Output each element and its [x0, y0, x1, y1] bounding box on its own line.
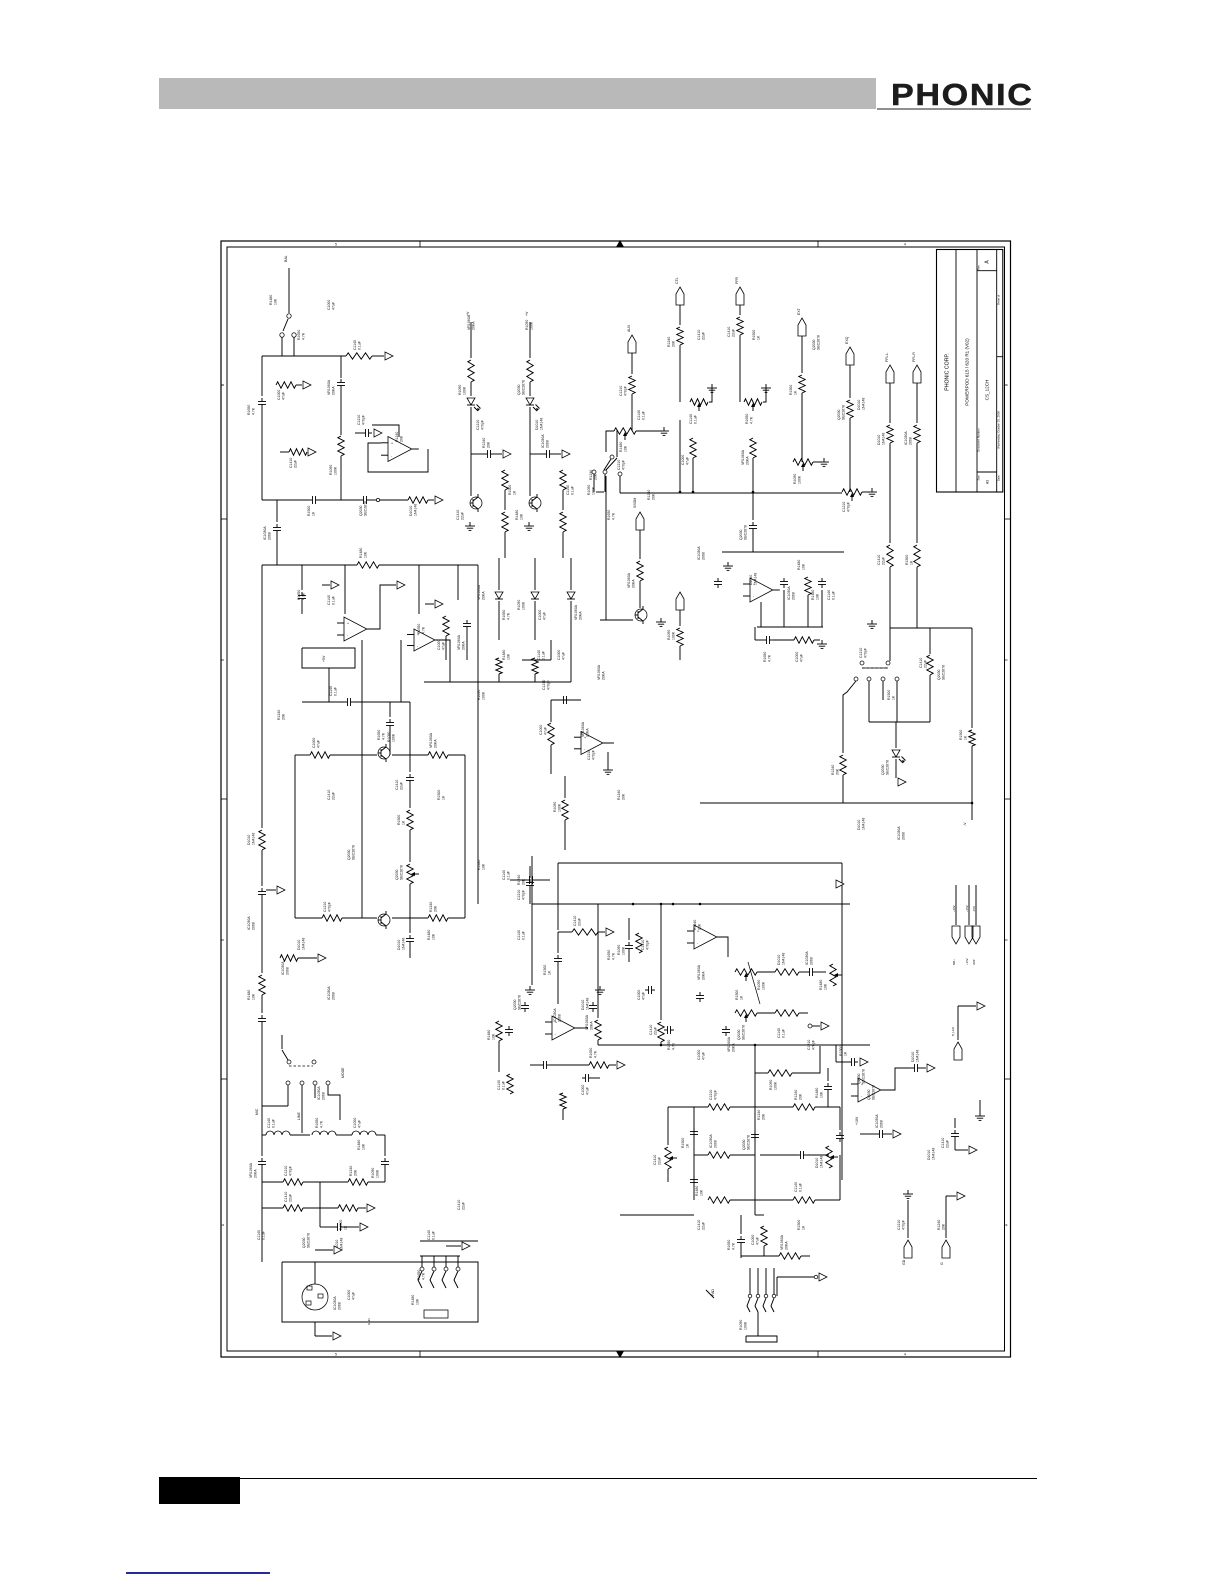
svg-text:PFL.L: PFL.L: [885, 353, 889, 362]
svg-text:D1010: D1010: [877, 435, 881, 445]
svg-text:20K: 20K: [762, 1113, 766, 1120]
svg-text:Rev: Rev: [977, 264, 981, 269]
svg-text:SEC2878: SEC2878: [518, 995, 522, 1010]
svg-text:C1000: C1000: [795, 652, 799, 662]
svg-text:GND: GND: [367, 1318, 371, 1326]
svg-text:R1480: R1480: [247, 990, 251, 1000]
svg-text:BAL: BAL: [284, 255, 288, 262]
svg-text:470pF: 470pF: [902, 1220, 906, 1230]
svg-text:4: 4: [904, 1353, 906, 1357]
svg-text:C1140: C1140: [427, 1230, 431, 1240]
svg-text:C1210: C1210: [842, 502, 846, 512]
svg-text:0.1uF: 0.1uF: [542, 651, 546, 660]
svg-text:C1210: C1210: [709, 1090, 713, 1100]
svg-text:10K: 10K: [416, 1298, 420, 1305]
svg-text:SEC2878: SEC2878: [842, 405, 846, 420]
svg-text:R1090: R1090: [757, 980, 761, 990]
svg-text:C1000: C1000: [581, 1085, 585, 1095]
svg-text:PFR: PFR: [735, 277, 739, 284]
svg-text:+48V: +48V: [952, 905, 956, 912]
svg-text:C1140: C1140: [353, 340, 357, 350]
svg-text:POWERPOD 615 / 620 R1 (V02): POWERPOD 615 / 620 R1 (V02): [965, 338, 970, 406]
svg-text:100K: 100K: [774, 1081, 778, 1090]
svg-text:VR1060A: VR1060A: [697, 964, 701, 980]
svg-text:EXT: EXT: [797, 307, 801, 315]
svg-text:D1010: D1010: [297, 940, 301, 950]
svg-text:47uF: 47uF: [586, 1087, 590, 1095]
svg-text:470pF: 470pF: [622, 460, 626, 470]
svg-text:1K: 1K: [802, 1225, 806, 1230]
svg-text:1K: 1K: [757, 335, 761, 340]
svg-text:C1410: C1410: [573, 916, 577, 926]
svg-text:1N4148: 1N4148: [862, 818, 866, 830]
svg-text:22uF: 22uF: [289, 1194, 293, 1202]
svg-text:20KA: 20KA: [702, 971, 706, 980]
svg-text:100K: 100K: [762, 981, 766, 990]
svg-text:20KA: 20KA: [586, 728, 590, 737]
svg-text:C1140: C1140: [777, 1028, 781, 1038]
svg-text:Q2030: Q2030: [857, 1073, 861, 1084]
svg-text:1K: 1K: [344, 1225, 348, 1230]
svg-text:VR1060A: VR1060A: [467, 314, 471, 330]
svg-text:-: -: [391, 454, 393, 458]
svg-text:D1010: D1010: [535, 420, 539, 430]
svg-text:47uF: 47uF: [332, 302, 336, 310]
svg-text:22uF: 22uF: [946, 1140, 950, 1148]
svg-text:4.7K: 4.7K: [750, 416, 754, 424]
svg-text:R1650: R1650: [247, 405, 251, 415]
svg-text:R1090: R1090: [458, 385, 462, 395]
svg-text:4.7K: 4.7K: [612, 952, 616, 960]
svg-text:22uF: 22uF: [462, 1202, 466, 1210]
svg-text:R1240: R1240: [667, 337, 671, 347]
svg-text:Q2030: Q2030: [359, 505, 363, 516]
svg-text:C1410: C1410: [289, 458, 293, 468]
svg-text:47uF: 47uF: [756, 1237, 760, 1245]
svg-text:22uF: 22uF: [882, 557, 886, 565]
svg-text:C1000: C1000: [277, 390, 281, 400]
svg-text:4.7K: 4.7K: [302, 592, 306, 600]
svg-text:VR1060A: VR1060A: [585, 1014, 589, 1030]
svg-text:SEC2878: SEC2878: [862, 1069, 866, 1084]
svg-text:470pF: 470pF: [847, 502, 851, 512]
svg-text:R1090: R1090: [739, 1320, 743, 1330]
svg-text:C1140: C1140: [689, 414, 693, 424]
svg-text:R1090: R1090: [517, 600, 521, 610]
svg-text:1K: 1K: [794, 390, 798, 395]
svg-text:C1140: C1140: [637, 410, 641, 420]
svg-text:C1410: C1410: [395, 780, 399, 790]
svg-text:B_LED: B_LED: [951, 1027, 955, 1036]
svg-text:SEC2878: SEC2878: [744, 525, 748, 540]
svg-text:Q2030: Q2030: [513, 999, 517, 1010]
svg-text:8: 8: [221, 939, 225, 941]
svg-text:-: -: [697, 942, 699, 946]
svg-text:4.7K: 4.7K: [302, 332, 306, 340]
svg-text:20K: 20K: [522, 878, 526, 885]
svg-text:C1410: C1410: [457, 1200, 461, 1210]
svg-text:-: -: [417, 644, 419, 648]
svg-text:20K: 20K: [652, 493, 656, 500]
svg-text:C1210: C1210: [619, 386, 623, 396]
svg-text:47uF: 47uF: [358, 1120, 362, 1128]
svg-text:0.1uF: 0.1uF: [502, 1081, 506, 1090]
svg-text:-15V: -15V: [972, 906, 976, 912]
svg-text:22uF: 22uF: [702, 332, 706, 340]
svg-text:Size: Size: [977, 475, 981, 481]
svg-text:VR1060A: VR1060A: [429, 732, 433, 748]
svg-text:20KA: 20KA: [579, 611, 583, 620]
svg-text:1N4148: 1N4148: [916, 1050, 920, 1062]
svg-text:20KA: 20KA: [462, 641, 466, 650]
svg-text:B: B: [221, 384, 225, 386]
svg-text:47uF: 47uF: [317, 740, 321, 748]
svg-text:C1210: C1210: [807, 1040, 811, 1050]
svg-text:IC1030A: IC1030A: [281, 961, 285, 975]
svg-text:1N4148: 1N4148: [302, 938, 306, 950]
svg-text:100K: 100K: [376, 1169, 380, 1178]
svg-text:8: 8: [221, 659, 225, 661]
svg-text:R1480: R1480: [477, 860, 481, 870]
svg-text:10K: 10K: [816, 593, 820, 600]
svg-text:2068: 2068: [546, 440, 550, 448]
svg-text:IC1030A: IC1030A: [553, 1008, 557, 1022]
svg-text:SEC2878: SEC2878: [400, 865, 404, 880]
svg-text:8: 8: [1005, 659, 1009, 661]
svg-text:20KA: 20KA: [602, 671, 606, 680]
svg-text:R1500: R1500: [797, 1220, 801, 1230]
svg-text:MIC: MIC: [255, 1108, 259, 1115]
svg-text:Q2030: Q2030: [812, 339, 816, 350]
svg-text:47uF: 47uF: [282, 392, 286, 400]
svg-text:20K: 20K: [799, 1093, 803, 1100]
svg-text:1K: 1K: [312, 511, 316, 516]
svg-text:R1500: R1500: [437, 790, 441, 800]
svg-text:2068: 2068: [332, 992, 336, 1000]
svg-text:20K: 20K: [942, 1223, 946, 1230]
svg-text:Q2030: Q2030: [517, 384, 521, 395]
svg-text:R1480: R1480: [502, 650, 506, 660]
svg-text:22uF: 22uF: [702, 1222, 706, 1230]
svg-text:20KA: 20KA: [332, 386, 336, 395]
svg-text:R1240: R1240: [693, 920, 697, 930]
svg-text:4.7K: 4.7K: [382, 732, 386, 740]
svg-text:CS_12CH: CS_12CH: [985, 380, 990, 401]
svg-text:1N4148: 1N4148: [414, 504, 418, 516]
svg-text:20KA: 20KA: [482, 591, 486, 600]
svg-text:GD: GD: [902, 1259, 906, 1265]
svg-text:VR1060A: VR1060A: [581, 721, 585, 737]
svg-text:0.1uF: 0.1uF: [507, 871, 511, 880]
svg-text:R1090: R1090: [371, 1168, 375, 1178]
svg-text:22uF: 22uF: [732, 329, 736, 337]
svg-text:C1410: C1410: [727, 327, 731, 337]
svg-text:R1090: R1090: [667, 630, 671, 640]
svg-text:100K: 100K: [482, 691, 486, 700]
svg-text:R1500: R1500: [508, 485, 512, 495]
svg-text:C1140: C1140: [517, 930, 521, 940]
svg-text:C1410: C1410: [697, 330, 701, 340]
svg-text:R1500: R1500: [959, 730, 963, 740]
svg-text:R1240: R1240: [482, 438, 486, 448]
svg-text:IC1030A: IC1030A: [327, 986, 331, 1000]
svg-text:1K: 1K: [442, 795, 446, 800]
svg-text:D1010: D1010: [397, 940, 401, 950]
svg-text:SEC2878: SEC2878: [364, 501, 368, 516]
svg-text:20KA: 20KA: [732, 1043, 736, 1052]
svg-text:470pF: 470pF: [362, 415, 366, 425]
svg-text:1K: 1K: [548, 970, 552, 975]
svg-text:R1090: R1090: [525, 320, 529, 330]
svg-text:C1210: C1210: [587, 750, 591, 760]
svg-text:0.1uF: 0.1uF: [432, 1231, 436, 1240]
svg-text:R1240: R1240: [647, 490, 651, 500]
svg-text:R1650: R1650: [417, 1270, 421, 1280]
svg-text:10K: 10K: [482, 863, 486, 870]
svg-text:1K: 1K: [892, 695, 896, 700]
svg-text:2068: 2068: [338, 1302, 342, 1310]
svg-text:R1500: R1500: [307, 506, 311, 516]
svg-text:10K: 10K: [492, 1033, 496, 1040]
svg-text:-: -: [861, 1095, 863, 1099]
svg-text:470pF: 470pF: [547, 680, 551, 690]
svg-text:AUX: AUX: [627, 324, 631, 332]
svg-text:R1240: R1240: [757, 1110, 761, 1120]
svg-text:R1480: R1480: [619, 442, 623, 452]
svg-text:22uF: 22uF: [924, 660, 928, 668]
svg-text:470pF: 470pF: [328, 902, 332, 912]
svg-text:0.1uF: 0.1uF: [694, 415, 698, 424]
svg-text:1N4148: 1N4148: [882, 433, 886, 445]
svg-text:B: B: [1005, 384, 1009, 386]
svg-text:0.1uF: 0.1uF: [522, 931, 526, 940]
svg-text:20K: 20K: [487, 441, 491, 448]
svg-text:4: 4: [619, 243, 621, 247]
svg-text:2068: 2068: [909, 437, 913, 445]
svg-text:2068: 2068: [286, 967, 290, 975]
svg-text:C1410: C1410: [327, 790, 331, 800]
svg-text:C1410: C1410: [919, 658, 923, 668]
svg-text:C1210: C1210: [284, 1166, 288, 1176]
svg-text:-V: -V: [963, 822, 967, 826]
svg-text:+: +: [391, 441, 393, 445]
svg-text:1N4148: 1N4148: [862, 398, 866, 410]
svg-text:10K: 10K: [364, 551, 368, 558]
svg-text:VR1060A: VR1060A: [780, 1234, 784, 1250]
svg-text:470pF: 470pF: [289, 1166, 293, 1176]
svg-text:VR1060A: VR1060A: [727, 1036, 731, 1052]
svg-text:VR1060A: VR1060A: [597, 664, 601, 680]
svg-text:C1000: C1000: [353, 1118, 357, 1128]
svg-text:20K: 20K: [434, 905, 438, 912]
svg-text:R1650: R1650: [745, 414, 749, 424]
svg-text:IC1030A: IC1030A: [904, 431, 908, 445]
svg-text:R1240: R1240: [517, 875, 521, 885]
svg-text:47uF: 47uF: [352, 1292, 356, 1300]
svg-text:Q2030: Q2030: [737, 1029, 741, 1040]
svg-text:IC1030A: IC1030A: [247, 916, 251, 930]
svg-text:22uF: 22uF: [654, 1027, 658, 1035]
svg-text:0.1uF: 0.1uF: [272, 1119, 276, 1128]
svg-text:22uF: 22uF: [400, 782, 404, 790]
svg-text:100K: 100K: [530, 321, 534, 330]
svg-text:20KA: 20KA: [785, 1241, 789, 1250]
svg-text:IC1030A: IC1030A: [697, 546, 701, 560]
svg-text:R1500: R1500: [789, 385, 793, 395]
svg-text:1N4148: 1N4148: [820, 1156, 824, 1168]
svg-text:47uF: 47uF: [543, 612, 547, 620]
svg-text:Document Number: Document Number: [977, 428, 981, 452]
svg-text:R1240: R1240: [277, 710, 281, 720]
svg-text:A: A: [1005, 1223, 1009, 1226]
svg-text:SEC2878: SEC2878: [742, 1025, 746, 1040]
svg-text:R1650: R1650: [417, 624, 421, 634]
svg-text:C1410: C1410: [653, 1155, 657, 1165]
svg-text:100K: 100K: [522, 601, 526, 610]
svg-text:PHONIC CORP.: PHONIC CORP.: [945, 353, 951, 390]
svg-text:1K: 1K: [964, 735, 968, 740]
svg-text:10K: 10K: [432, 933, 436, 940]
svg-text:47uF: 47uF: [562, 652, 566, 660]
svg-text:VR1060A: VR1060A: [249, 1162, 253, 1178]
svg-text:2068: 2068: [702, 552, 706, 560]
svg-text:VR1060A: VR1060A: [627, 572, 631, 588]
svg-text:C1140: C1140: [566, 485, 570, 495]
svg-text:470pF: 470pF: [646, 940, 650, 950]
svg-text:1K: 1K: [740, 995, 744, 1000]
svg-text:22uF: 22uF: [294, 460, 298, 468]
svg-text:4.7K: 4.7K: [594, 1050, 598, 1058]
svg-text:R1650: R1650: [297, 330, 301, 340]
svg-text:C1140: C1140: [329, 686, 333, 696]
svg-text:2068: 2068: [322, 1092, 326, 1100]
svg-text:C1210: C1210: [357, 415, 361, 425]
svg-text:C1000: C1000: [557, 650, 561, 660]
svg-text:20KA: 20KA: [472, 321, 476, 330]
svg-text:470pF: 470pF: [714, 1090, 718, 1100]
svg-text:LINE: LINE: [297, 1112, 301, 1120]
svg-text:C1000: C1000: [637, 990, 641, 1000]
svg-text:1N4148: 1N4148: [754, 573, 758, 585]
svg-text:Q2030: Q2030: [937, 669, 941, 680]
svg-text:100K: 100K: [334, 466, 338, 475]
svg-text:R1650: R1650: [763, 652, 767, 662]
svg-text:20K: 20K: [836, 768, 840, 775]
svg-text:SEC2878: SEC2878: [307, 1233, 311, 1248]
svg-text:Q2030: Q2030: [302, 1237, 306, 1248]
svg-text:20KA: 20KA: [746, 456, 750, 465]
svg-text:R1500: R1500: [543, 965, 547, 975]
svg-text:4.7K: 4.7K: [320, 1120, 324, 1128]
svg-text:R1090: R1090: [617, 945, 621, 955]
svg-text:20KA: 20KA: [254, 1169, 258, 1178]
svg-text:C1410: C1410: [941, 1138, 945, 1148]
svg-text:20KA: 20KA: [590, 1021, 594, 1030]
svg-text:20KA: 20KA: [632, 579, 636, 588]
svg-text:SEC2878: SEC2878: [352, 845, 356, 860]
svg-text:1N4148: 1N4148: [586, 998, 590, 1010]
svg-text:4.7K: 4.7K: [768, 654, 772, 662]
svg-text:R1090: R1090: [793, 474, 797, 484]
svg-text:IC1030A: IC1030A: [709, 1134, 713, 1148]
svg-text:C1410: C1410: [649, 1025, 653, 1035]
svg-text:D1010: D1010: [581, 1000, 585, 1010]
svg-text:R1090: R1090: [587, 485, 591, 495]
svg-text:D1010: D1010: [749, 575, 753, 585]
svg-text:-: -: [584, 747, 586, 751]
svg-text:IC1030A: IC1030A: [333, 1296, 337, 1310]
svg-text:20K: 20K: [672, 340, 676, 347]
svg-text:100K: 100K: [463, 386, 467, 395]
svg-text:1N4148: 1N4148: [782, 953, 786, 965]
svg-text:20K: 20K: [400, 435, 404, 442]
svg-text:22uF: 22uF: [578, 918, 582, 926]
svg-text:10K: 10K: [802, 563, 806, 570]
svg-text:10K: 10K: [274, 298, 278, 305]
svg-text:D1010: D1010: [815, 1158, 819, 1168]
svg-text:470pF: 470pF: [864, 648, 868, 658]
svg-text:-: -: [555, 1033, 557, 1037]
svg-text:PFL.R: PFL.R: [912, 352, 916, 362]
svg-text:47uF: 47uF: [800, 654, 804, 662]
svg-text:100K: 100K: [622, 946, 626, 955]
svg-text:10K: 10K: [507, 653, 511, 660]
svg-text:470pF: 470pF: [481, 420, 485, 430]
svg-text:SEC2878: SEC2878: [817, 335, 821, 350]
svg-text:C1210: C1210: [641, 940, 645, 950]
svg-text:2068: 2068: [252, 922, 256, 930]
svg-text:G: G: [940, 1262, 944, 1265]
svg-text:R1090: R1090: [329, 465, 333, 475]
svg-text:VR1060A: VR1060A: [457, 634, 461, 650]
svg-text:SEC2878: SEC2878: [886, 760, 890, 775]
svg-text:C1210: C1210: [476, 420, 480, 430]
svg-text:SEC2878: SEC2878: [872, 1085, 876, 1100]
svg-text:R1480: R1480: [357, 1140, 361, 1150]
svg-text:R1090: R1090: [769, 1080, 773, 1090]
svg-text:Q2030: Q2030: [867, 1089, 871, 1100]
svg-text:4: 4: [619, 1353, 621, 1357]
svg-text:C1140: C1140: [327, 595, 331, 605]
svg-text:0.1uF: 0.1uF: [332, 596, 336, 605]
svg-text:4.7K: 4.7K: [422, 1272, 426, 1280]
svg-text:100K: 100K: [798, 475, 802, 484]
svg-text:C1140: C1140: [497, 1080, 501, 1090]
svg-text:D1010: D1010: [857, 820, 861, 830]
svg-text:10K: 10K: [624, 445, 628, 452]
svg-text:2068: 2068: [880, 1120, 884, 1128]
svg-text:IC1030A: IC1030A: [541, 434, 545, 448]
svg-text:IC1030A: IC1030A: [317, 1086, 321, 1100]
svg-text:R1480: R1480: [515, 510, 519, 520]
svg-text:0.1uF: 0.1uF: [571, 486, 575, 495]
svg-text:10K: 10K: [700, 1189, 704, 1196]
svg-text:Date:: Date:: [997, 475, 1001, 481]
svg-text:R1240: R1240: [617, 790, 621, 800]
svg-text:1K: 1K: [402, 820, 406, 825]
svg-text:1N4148: 1N4148: [932, 1148, 936, 1160]
svg-text:R1480: R1480: [487, 1030, 491, 1040]
svg-text:C1210: C1210: [542, 680, 546, 690]
svg-text:C1410: C1410: [456, 510, 460, 520]
svg-text:R1480: R1480: [695, 1186, 699, 1196]
svg-text:20K: 20K: [698, 923, 702, 930]
svg-text:PAD: PAD: [711, 1289, 715, 1296]
svg-text:EXQ: EXQ: [845, 336, 849, 344]
svg-text:1N4148: 1N4148: [540, 418, 544, 430]
svg-text:C1410: C1410: [697, 1220, 701, 1230]
svg-text:D1010: D1010: [911, 1052, 915, 1062]
